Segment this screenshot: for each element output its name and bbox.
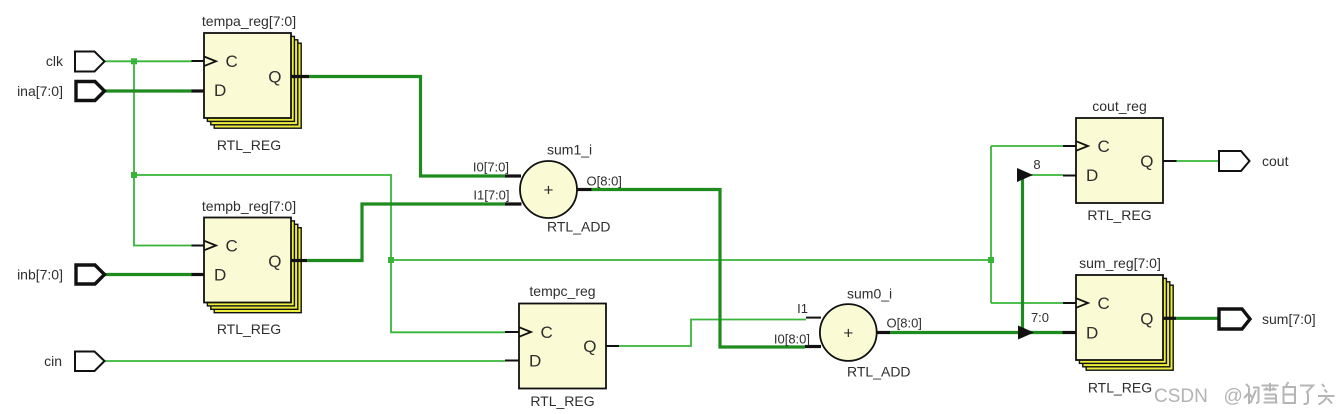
svg-text:C: C — [1098, 137, 1110, 156]
adder sum0_i — [820, 304, 877, 361]
watermark chinese glyph xue — [1262, 383, 1279, 403]
bus rip arrow 7:0 — [1018, 310, 1049, 340]
svg-text:RTL_ADD: RTL_ADD — [847, 364, 911, 380]
svg-text:sum_reg[7:0]: sum_reg[7:0] — [1079, 255, 1161, 271]
svg-text:sum1_i: sum1_i — [547, 142, 592, 158]
wire tempc Q to sum0 I1 — [619, 320, 807, 347]
sum1_i labels — [547, 142, 611, 235]
svg-text:RTL_REG: RTL_REG — [1087, 207, 1151, 223]
junction clk net at clk port branch — [131, 58, 137, 64]
svg-text:RTL_REG: RTL_REG — [1088, 380, 1152, 396]
sum_reg pin stubs — [1063, 303, 1177, 333]
svg-text:cout: cout — [1262, 153, 1289, 169]
wire inb bus — [105, 273, 193, 276]
tempc_reg pin stubs — [505, 332, 619, 361]
wire tempa Q to sum1 I0 — [309, 77, 505, 177]
svg-text:RTL_ADD: RTL_ADD — [547, 219, 611, 235]
input port inb[7:0] — [17, 265, 104, 284]
cout_reg pin stubs — [1063, 146, 1177, 176]
svg-text:ina[7:0]: ina[7:0] — [17, 83, 63, 99]
svg-text:cout_reg: cout_reg — [1092, 98, 1146, 114]
svg-text:tempc_reg: tempc_reg — [529, 283, 595, 299]
svg-text:+: + — [843, 324, 853, 343]
svg-text:C: C — [226, 237, 238, 256]
svg-text:C: C — [226, 52, 238, 71]
svg-text:D: D — [1086, 324, 1098, 343]
wire bus tap vertical 8 — [1021, 175, 1024, 333]
sum0_i pin stubs — [805, 318, 890, 347]
wire sum_reg Q to sum port — [1176, 317, 1218, 320]
wire sum0 O to sum_reg D — [890, 331, 1063, 334]
svg-text:sum0_i: sum0_i — [847, 286, 892, 302]
watermark chinese glyph chu — [1244, 384, 1260, 404]
svg-text:Q: Q — [268, 252, 281, 271]
tempb_reg pin stubs — [192, 246, 308, 275]
register tempc_reg body — [519, 304, 606, 389]
bus rip arrow bit 8 — [1017, 157, 1041, 182]
svg-text:sum[7:0]: sum[7:0] — [1262, 311, 1316, 327]
register tempb_reg body — [204, 218, 291, 303]
svg-text:D: D — [214, 81, 226, 100]
svg-text:C: C — [1098, 294, 1110, 313]
svg-text:CSDN: CSDN — [1154, 386, 1208, 407]
cout_reg labels — [1087, 98, 1151, 223]
register tempa_reg body — [204, 33, 291, 118]
svg-text:tempa_reg[7:0]: tempa_reg[7:0] — [202, 13, 296, 29]
svg-text:I1[7:0]: I1[7:0] — [473, 188, 509, 203]
junction clk net left branch — [131, 172, 137, 178]
svg-text:inb[7:0]: inb[7:0] — [17, 267, 63, 283]
wire sum1 O to sum0 I0 — [592, 190, 806, 348]
tempb_reg labels — [202, 198, 296, 337]
tempc_reg labels — [529, 283, 595, 409]
svg-text:RTL_REG: RTL_REG — [530, 393, 594, 409]
register tempa_reg stack — [207, 36, 301, 128]
register tempb_reg stack — [207, 221, 301, 313]
sum0_i labels — [847, 286, 911, 380]
svg-text:Q: Q — [1140, 152, 1153, 171]
svg-text:tempb_reg[7:0]: tempb_reg[7:0] — [202, 198, 296, 214]
wire clk net thin segments — [105, 61, 1064, 332]
wire cout Q to cout port — [1177, 160, 1220, 162]
wire cin net — [105, 360, 506, 362]
sum1_i pin labels — [473, 160, 622, 203]
svg-text:@: @ — [1224, 386, 1243, 407]
svg-text:O[8:0]: O[8:0] — [887, 316, 922, 331]
svg-text:D: D — [529, 352, 541, 371]
svg-text:Q: Q — [583, 337, 596, 356]
svg-text:8: 8 — [1033, 157, 1040, 172]
sum_reg labels — [1079, 255, 1161, 396]
input port cin — [44, 352, 104, 372]
output port cout — [1219, 151, 1289, 171]
svg-text:Q: Q — [1140, 310, 1153, 329]
svg-text:I0[8:0]: I0[8:0] — [774, 332, 810, 347]
watermark chinese glyph tou — [1318, 384, 1335, 405]
sum0_i pin labels — [774, 301, 922, 347]
wire tempb Q to sum1 I1 — [307, 204, 505, 261]
register sum_reg body — [1076, 275, 1163, 360]
svg-text:clk: clk — [46, 53, 64, 69]
register cout_reg body — [1076, 118, 1163, 203]
tempa_reg pin stubs — [192, 61, 310, 91]
svg-text:cin: cin — [44, 353, 62, 369]
svg-text:C: C — [541, 323, 553, 342]
svg-text:D: D — [214, 266, 226, 285]
junction clk net right branch — [988, 257, 994, 263]
svg-text:Q: Q — [268, 68, 281, 87]
svg-text:RTL_REG: RTL_REG — [217, 137, 281, 153]
output port sum[7:0] — [1219, 309, 1316, 329]
svg-text:7:0: 7:0 — [1031, 310, 1049, 325]
watermark chinese glyph bai — [1284, 382, 1296, 403]
wire ina bus — [105, 89, 193, 92]
adder sum1_i — [520, 161, 577, 218]
svg-text:RTL_REG: RTL_REG — [217, 321, 281, 337]
wire bit8 tap to cout_reg D — [1031, 174, 1063, 176]
watermark chinese glyph le — [1300, 386, 1313, 405]
input port ina[7:0] — [17, 82, 104, 101]
svg-text:I1: I1 — [797, 301, 808, 316]
svg-text:O[8:0]: O[8:0] — [587, 174, 622, 189]
tempa_reg labels — [202, 13, 296, 153]
svg-text:D: D — [1086, 166, 1098, 185]
svg-text:I0[7:0]: I0[7:0] — [473, 160, 509, 175]
junction clk net mid branch — [388, 257, 394, 263]
sum1_i pin stubs — [505, 176, 592, 204]
watermark CSDN — [1154, 386, 1243, 407]
input port clk — [46, 52, 105, 72]
register sum_reg stack — [1079, 278, 1173, 370]
svg-text:+: + — [544, 181, 554, 200]
